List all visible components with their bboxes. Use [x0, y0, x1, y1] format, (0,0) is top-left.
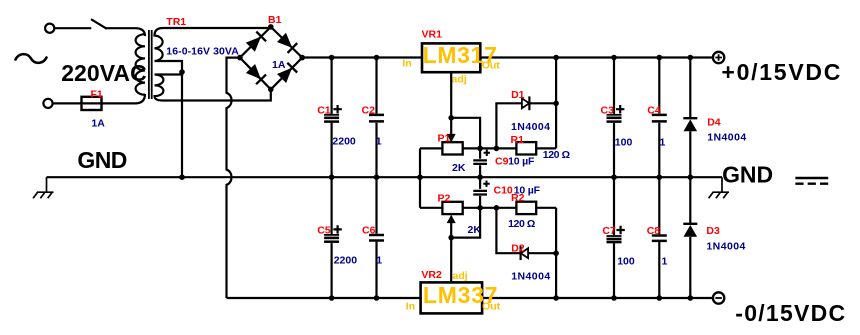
svg-text:GND: GND [722, 162, 773, 188]
svg-text:TR1: TR1 [166, 16, 186, 28]
svg-text:R1: R1 [511, 134, 525, 146]
capacitor C2 [375, 58, 377, 178]
svg-text:VR2: VR2 [421, 269, 442, 281]
node P2 line D2 branch [494, 205, 500, 211]
svg-text:1A: 1A [91, 118, 105, 130]
svg-text:C6: C6 [362, 225, 376, 237]
ground symbol right [709, 177, 729, 198]
node bridge right [299, 55, 305, 61]
svg-text:-0/15VDC: -0/15VDC [735, 300, 845, 326]
svg-text:1N4004: 1N4004 [511, 270, 550, 282]
wire through fuse [53, 94, 145, 103]
svg-text:1N4004: 1N4004 [706, 240, 745, 252]
capacitor C9 [479, 148, 481, 177]
wire bottom negative rail [227, 297, 713, 299]
wire out branch vertical R2/D2 [555, 208, 557, 298]
terminal bottom-left [43, 99, 52, 108]
node gnd C4 [657, 174, 663, 180]
node P2 line C10 [477, 205, 483, 211]
AC source symbol ~ [16, 54, 47, 63]
wire center tap to ground rail [181, 72, 183, 177]
svg-text:1: 1 [376, 255, 382, 267]
capacitor C7 [613, 177, 615, 298]
resistor R1 [516, 142, 536, 154]
node adj2 junction [448, 235, 454, 241]
capacitor C8 [658, 177, 660, 298]
svg-text:In: In [406, 300, 415, 312]
diode bridge top-right [277, 32, 298, 52]
svg-text:P1: P1 [438, 133, 451, 145]
svg-text:P2: P2 [438, 192, 451, 204]
svg-text:D4: D4 [707, 116, 721, 128]
node center tap [179, 69, 185, 75]
svg-text:Out: Out [482, 60, 501, 72]
svg-text:F1: F1 [91, 89, 103, 101]
node adj junction [448, 115, 454, 121]
wire P1 left to gnd [419, 148, 421, 177]
node gnd C9/C10 [477, 174, 483, 180]
node gnd center tap [179, 174, 185, 180]
wire bridge left corner to negative vertical with crossover hops [227, 58, 240, 298]
capacitor C1 [331, 58, 333, 178]
transformer TR1 secondary bottom winding [155, 72, 271, 101]
capacitor C5 [331, 177, 333, 298]
svg-text:100: 100 [615, 137, 633, 149]
potentiometer P1 [447, 134, 456, 143]
svg-text:D3: D3 [706, 225, 720, 237]
diode D4 [689, 58, 691, 178]
svg-text:C7: C7 [602, 225, 616, 237]
potentiometer P2 [447, 215, 456, 224]
resistor R2 [516, 202, 536, 214]
diode bridge top-left [246, 32, 267, 53]
bridge rectifier B1 diamond [240, 27, 302, 90]
node top rail C1 [329, 55, 335, 61]
svg-text:2200: 2200 [334, 255, 358, 267]
terminal output negative [713, 292, 724, 303]
node bottom rail C6 [374, 295, 380, 301]
capacitor C4 [658, 58, 660, 178]
svg-text:D1: D1 [511, 89, 525, 101]
node bottom rail out branch [553, 295, 559, 301]
node top rail C2 [374, 55, 380, 61]
svg-text:220VAC: 220VAC [61, 60, 147, 86]
svg-text:C2: C2 [362, 105, 376, 117]
node gnd D4 [688, 174, 694, 180]
node gnd C2 [374, 174, 380, 180]
wire to transformer primary top [106, 28, 146, 36]
diode D2 [496, 208, 520, 253]
svg-text:VR1: VR1 [422, 29, 443, 41]
wire adj2 jog to P2 node [451, 208, 480, 238]
node gnd P branch [417, 174, 423, 180]
regulator VR2 LM337 box [421, 282, 483, 313]
wire [54, 27, 91, 29]
svg-text:1: 1 [660, 137, 666, 149]
node top rail C4 [657, 55, 663, 61]
svg-text:10 µF: 10 µF [514, 185, 541, 197]
node bridge bottom [268, 87, 274, 93]
svg-text:C9: C9 [495, 156, 509, 168]
svg-text:Out: Out [482, 300, 501, 312]
wire VR2 adj stem [450, 223, 452, 283]
svg-text:1: 1 [662, 256, 668, 268]
regulator VR1 LM317 box [422, 43, 480, 72]
svg-text:C8: C8 [647, 225, 661, 237]
terminal output positive [713, 52, 724, 63]
svg-text:2200: 2200 [332, 136, 356, 148]
node gnd C1 [329, 174, 335, 180]
node bridge left [237, 55, 243, 61]
svg-text:C3: C3 [601, 105, 615, 117]
svg-text:1A: 1A [272, 59, 286, 71]
node bottom rail C5 [329, 295, 335, 301]
node P1 line D1 branch [494, 146, 500, 152]
fuse F1 [82, 97, 102, 110]
svg-text:C4: C4 [647, 105, 661, 117]
node top rail C3 [611, 55, 617, 61]
node gnd C3 [611, 174, 617, 180]
svg-text:In: In [402, 57, 411, 69]
svg-text:120 Ω: 120 Ω [543, 149, 570, 161]
svg-text:adj: adj [452, 74, 467, 86]
svg-text:B1: B1 [268, 14, 282, 26]
wire out branch vertical R1/D1 [555, 58, 557, 149]
node top rail D4 [688, 55, 694, 61]
earth dashes symbol [795, 177, 828, 180]
svg-text:10 µF: 10 µF [508, 156, 535, 168]
transformer TR1 core [149, 30, 152, 99]
ground symbol left [33, 177, 53, 198]
svg-text:120 Ω: 120 Ω [508, 218, 535, 230]
node top rail out branch [553, 55, 559, 61]
node bridge top [268, 24, 274, 30]
node D2 out [553, 250, 559, 256]
svg-text:1N4004: 1N4004 [511, 121, 550, 133]
svg-text:C5: C5 [317, 225, 331, 237]
capacitor C3 [613, 58, 615, 178]
wire VR1 adj stem [450, 72, 452, 134]
node D1 out [553, 101, 559, 107]
switch S1 blade [91, 19, 107, 29]
node bottom rail C8 [657, 295, 663, 301]
svg-text:16-0-16V 30VA: 16-0-16V 30VA [166, 46, 239, 58]
diode D3 [689, 177, 691, 298]
svg-text:2K: 2K [452, 162, 466, 174]
svg-text:1: 1 [376, 136, 382, 148]
node P1 line C9 [477, 146, 483, 152]
diode D1 [496, 103, 522, 148]
svg-text:D2: D2 [511, 243, 525, 255]
svg-text:C1: C1 [317, 105, 331, 117]
svg-text:GND: GND [77, 147, 127, 173]
svg-text:adj: adj [453, 270, 468, 282]
terminal top-left [45, 24, 54, 33]
wire top positive rail [302, 56, 713, 58]
node bottom rail C7 [611, 295, 617, 301]
svg-text:1N4004: 1N4004 [707, 131, 746, 143]
svg-text:C10: C10 [494, 185, 513, 197]
diode bridge bottom-right [277, 63, 297, 84]
node bottom rail D3 [688, 295, 694, 301]
wire ground rail [47, 176, 723, 178]
transformer TR1 primary winding [136, 34, 145, 94]
diode bridge bottom-left [246, 64, 266, 85]
capacitor C6 [375, 177, 377, 298]
transformer TR1 secondary top winding [155, 28, 271, 72]
wire adj jog to P1 node [451, 118, 480, 149]
wire P2 left to gnd [419, 177, 421, 208]
capacitor C10 [479, 177, 481, 208]
svg-text:100: 100 [617, 256, 635, 268]
